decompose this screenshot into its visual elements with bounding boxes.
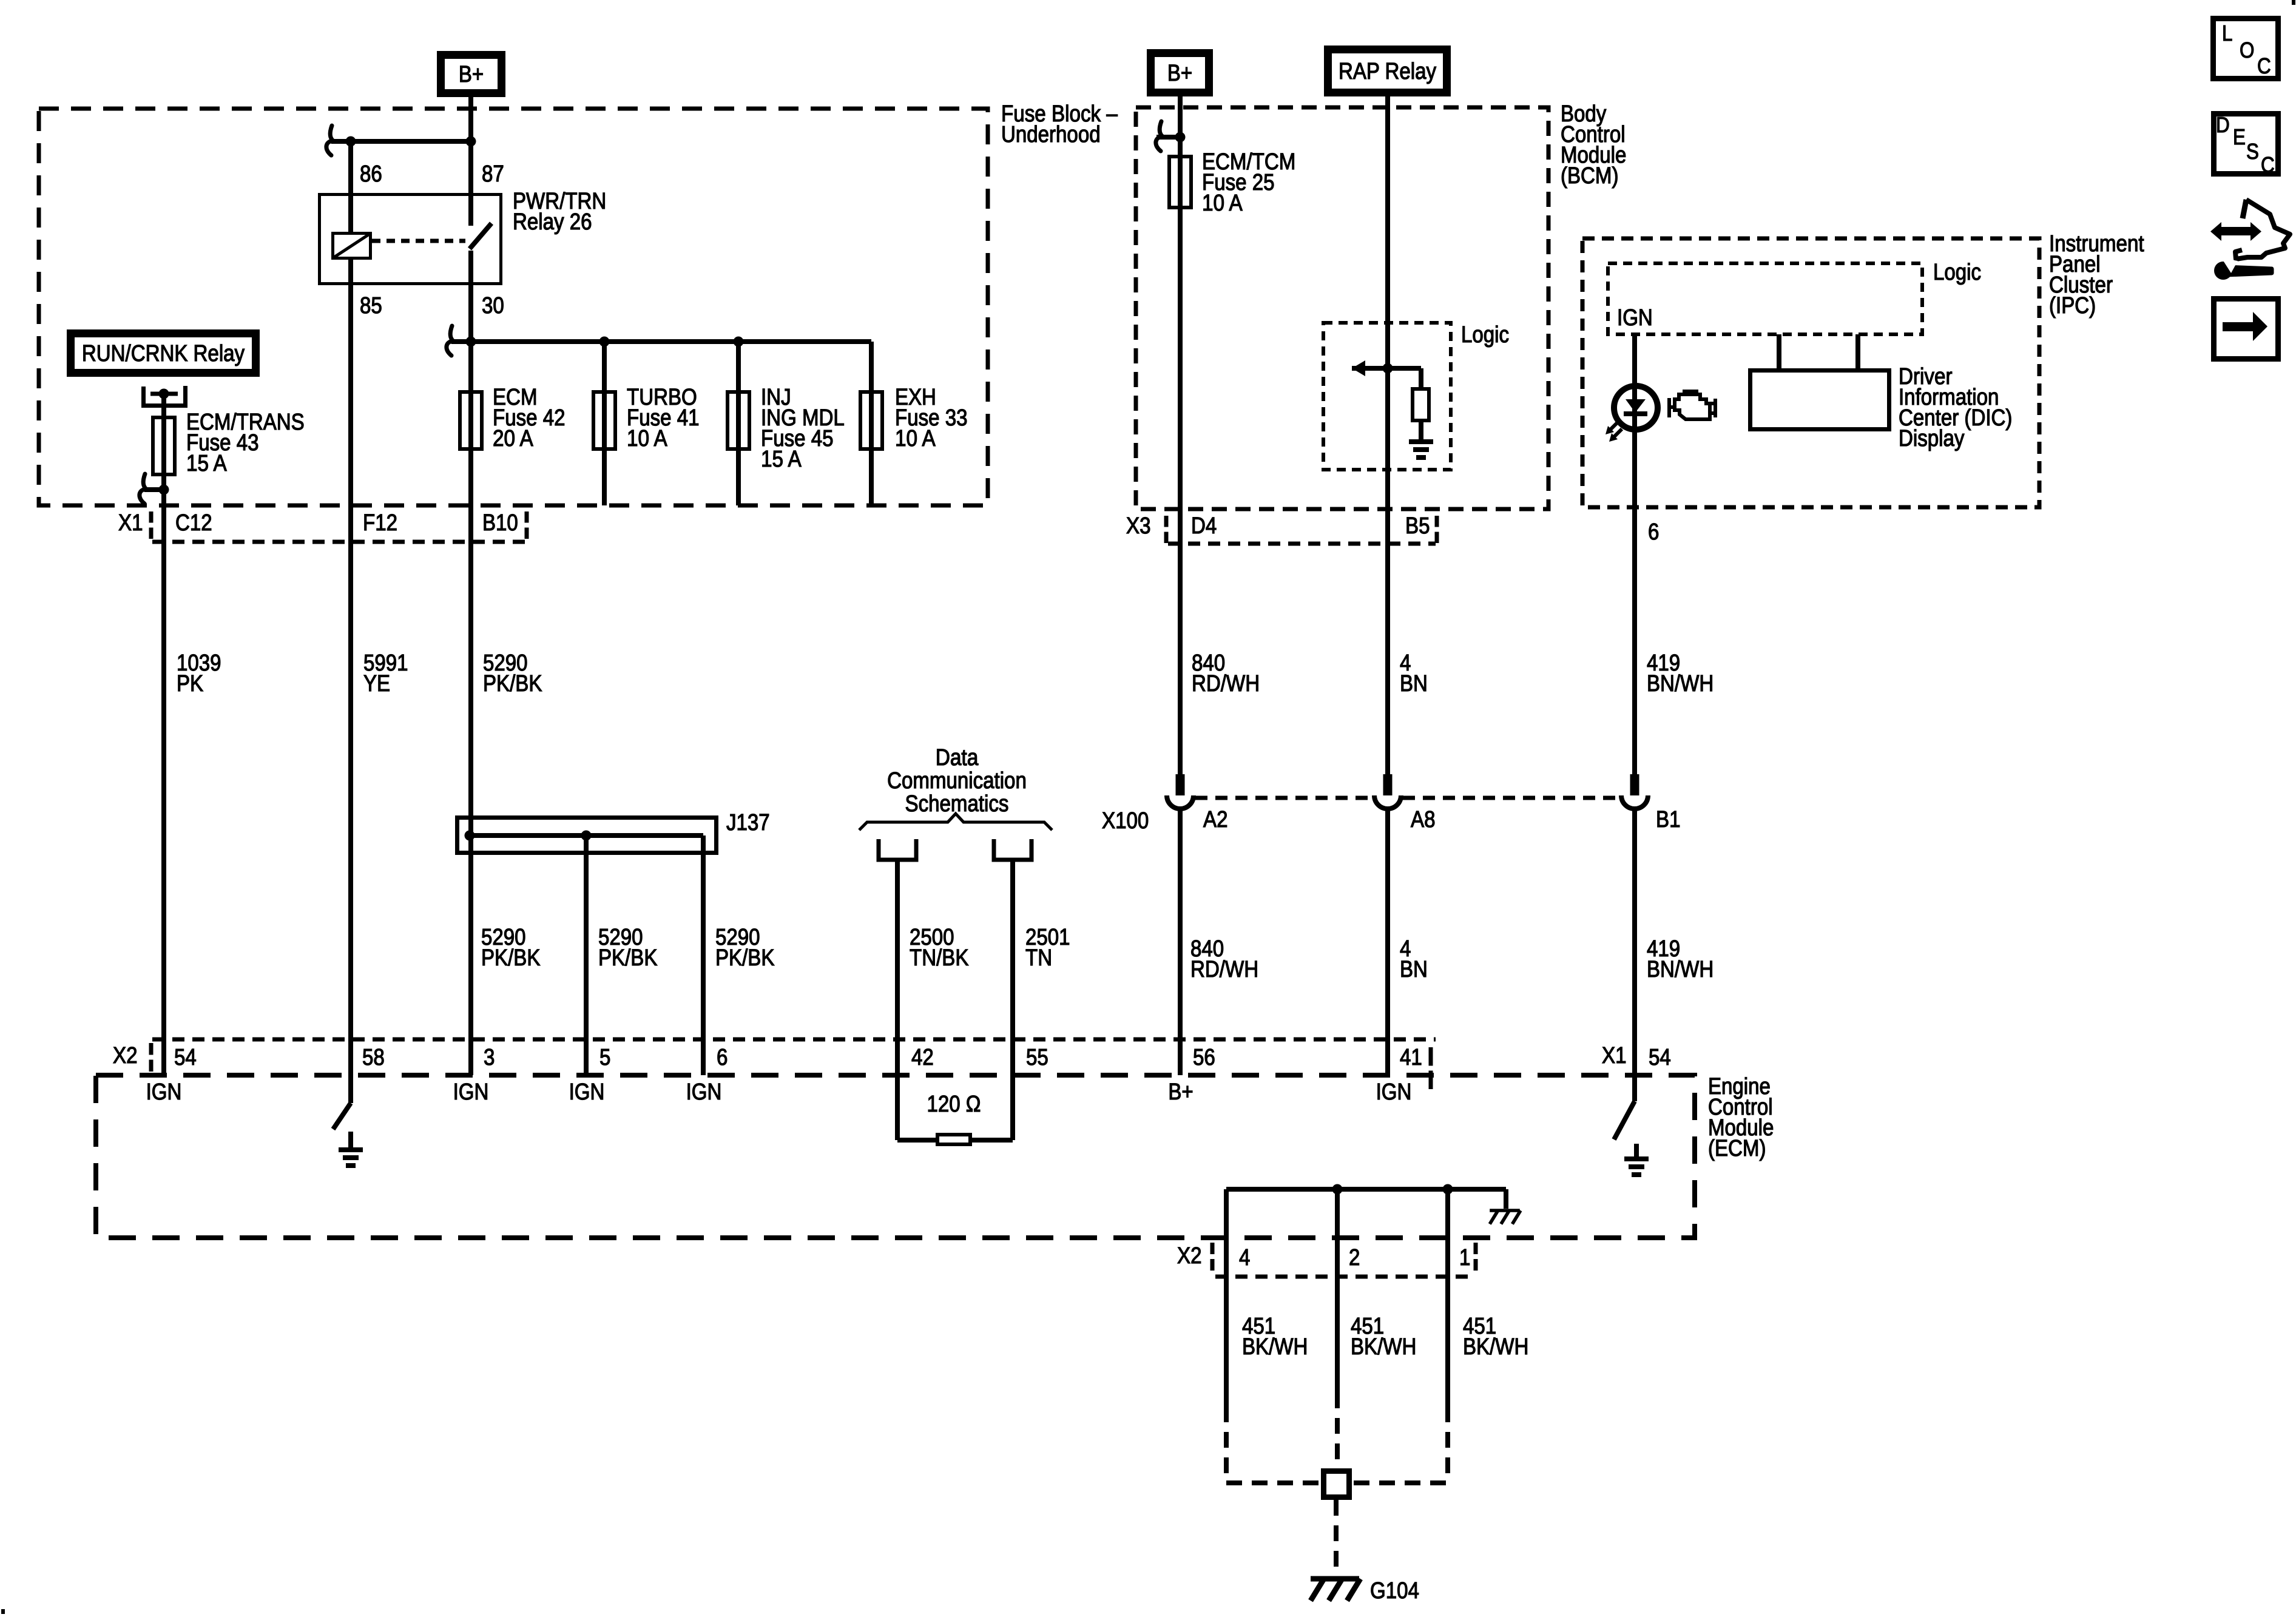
svg-text:85: 85 (360, 293, 382, 319)
svg-text:IGN: IGN (1376, 1079, 1412, 1105)
svg-text:15 A: 15 A (761, 447, 802, 472)
svg-text:PK/BK: PK/BK (483, 671, 542, 697)
svg-text:D: D (2216, 112, 2230, 137)
svg-text:1: 1 (1459, 1245, 1470, 1271)
svg-text:B+: B+ (459, 62, 484, 87)
svg-text:(ECM): (ECM) (1708, 1136, 1766, 1161)
svg-text:86: 86 (360, 161, 382, 187)
svg-text:G104: G104 (1370, 1578, 1419, 1604)
svg-text:BN: BN (1400, 671, 1428, 697)
svg-text:6: 6 (1648, 519, 1659, 545)
svg-text:O: O (2240, 38, 2254, 62)
svg-text:RAP Relay: RAP Relay (1339, 59, 1436, 84)
svg-text:PK/BK: PK/BK (598, 945, 657, 971)
svg-text:30: 30 (482, 293, 504, 319)
svg-text:YE: YE (363, 671, 390, 697)
svg-text:42: 42 (911, 1045, 934, 1070)
svg-text:B+: B+ (1168, 1079, 1193, 1105)
svg-text:3: 3 (484, 1045, 495, 1070)
svg-text:IGN: IGN (686, 1079, 722, 1105)
svg-text:X1: X1 (1602, 1043, 1627, 1068)
svg-text:B1: B1 (1656, 807, 1681, 832)
svg-text:(IPC): (IPC) (2049, 293, 2096, 319)
svg-text:B5: B5 (1405, 513, 1430, 539)
svg-text:4: 4 (1239, 1245, 1250, 1271)
svg-text:X2: X2 (1177, 1243, 1202, 1269)
svg-text:Underhood: Underhood (1001, 122, 1101, 147)
svg-text:X1: X1 (118, 510, 143, 536)
svg-text:X3: X3 (1126, 513, 1151, 539)
svg-text:S: S (2246, 139, 2259, 164)
svg-text:BN: BN (1400, 957, 1428, 982)
svg-text:58: 58 (362, 1045, 385, 1070)
svg-text:J137: J137 (726, 810, 770, 836)
svg-text:TN/BK: TN/BK (910, 945, 968, 971)
svg-text:RD/WH: RD/WH (1192, 671, 1260, 697)
svg-text:Logic: Logic (1933, 260, 1981, 285)
svg-text:55: 55 (1026, 1045, 1048, 1070)
svg-text:C: C (2261, 152, 2275, 177)
svg-text:IGN: IGN (569, 1079, 605, 1105)
svg-text:10 A: 10 A (895, 426, 936, 451)
svg-text:X2: X2 (113, 1043, 138, 1068)
svg-text:TN: TN (1025, 945, 1052, 971)
svg-text:IGN: IGN (146, 1079, 182, 1105)
svg-text:54: 54 (1649, 1045, 1671, 1070)
svg-text:BK/WH: BK/WH (1351, 1334, 1416, 1360)
svg-text:PK/BK: PK/BK (481, 945, 540, 971)
svg-text:PK/BK: PK/BK (715, 945, 774, 971)
svg-text:IGN: IGN (1617, 305, 1653, 331)
svg-text:BN/WH: BN/WH (1647, 671, 1714, 697)
svg-text:C12: C12 (175, 510, 212, 536)
svg-text:41: 41 (1400, 1045, 1422, 1070)
svg-text:D4: D4 (1191, 513, 1217, 539)
svg-text:10 A: 10 A (1202, 191, 1243, 216)
svg-text:Schematics: Schematics (905, 791, 1009, 817)
svg-text:RUN/CRNK Relay: RUN/CRNK Relay (82, 341, 245, 366)
svg-text:2: 2 (1349, 1245, 1360, 1271)
svg-text:20 A: 20 A (493, 426, 533, 451)
svg-text:5: 5 (599, 1045, 610, 1070)
svg-text:L: L (2222, 21, 2232, 46)
svg-text:B+: B+ (1167, 61, 1192, 86)
svg-text:87: 87 (482, 161, 504, 187)
svg-text:56: 56 (1193, 1045, 1215, 1070)
svg-text:Display: Display (1899, 426, 1964, 451)
svg-text:Data: Data (936, 745, 979, 771)
svg-text:F12: F12 (363, 510, 397, 536)
svg-text:IGN: IGN (453, 1079, 489, 1105)
svg-text:120 Ω: 120 Ω (927, 1092, 981, 1117)
svg-text:54: 54 (174, 1045, 197, 1070)
svg-text:10 A: 10 A (627, 426, 667, 451)
svg-text:Communication: Communication (887, 768, 1027, 794)
svg-text:(BCM): (BCM) (1561, 163, 1619, 189)
svg-text:B10: B10 (482, 510, 518, 536)
svg-text:Relay 26: Relay 26 (513, 209, 592, 235)
svg-text:BN/WH: BN/WH (1647, 957, 1714, 982)
svg-text:C: C (2257, 53, 2271, 78)
svg-text:RD/WH: RD/WH (1190, 957, 1258, 982)
svg-text:BK/WH: BK/WH (1242, 1334, 1308, 1360)
svg-text:A8: A8 (1411, 807, 1436, 832)
svg-text:Logic: Logic (1461, 322, 1509, 348)
svg-text:BK/WH: BK/WH (1463, 1334, 1528, 1360)
svg-text:6: 6 (717, 1045, 728, 1070)
svg-text:E: E (2233, 124, 2246, 149)
svg-text:X100: X100 (1102, 808, 1149, 834)
svg-text:A2: A2 (1203, 807, 1228, 832)
svg-text:15 A: 15 A (186, 451, 227, 476)
svg-text:PK: PK (177, 671, 203, 697)
